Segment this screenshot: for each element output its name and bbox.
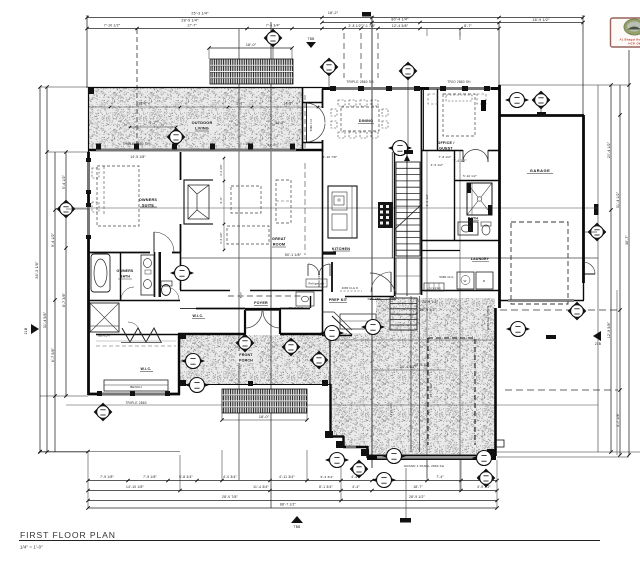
svg-text:31′-4 5/8″: 31′-4 5/8″ bbox=[43, 311, 47, 328]
svg-text:31′-4 1/2″: 31′-4 1/2″ bbox=[616, 191, 620, 208]
left ext line y=152 bbox=[47, 151, 88, 153]
svg-text:4′-4″: 4′-4″ bbox=[352, 485, 360, 489]
left section arrow 21B bbox=[31, 324, 39, 334]
hall south wall y=308 bbox=[180, 308, 196, 310]
bottom ext x=307 bbox=[306, 450, 308, 480]
svg-text:4′-0 3/4″: 4′-0 3/4″ bbox=[223, 475, 237, 479]
garage right lower jog bbox=[583, 283, 585, 300]
kitchen counter black bar bbox=[323, 252, 336, 255]
bath/wic divider y=300 bbox=[88, 300, 180, 302]
svg-text:LAUNDRY: LAUNDRY bbox=[471, 257, 490, 261]
laundry walls bbox=[421, 250, 460, 252]
bottom ext x=497 bbox=[496, 460, 498, 508]
right dim line x=629 bbox=[628, 50, 630, 455]
sw window triple 2860 bbox=[100, 393, 168, 396]
bottom center grid tick bbox=[400, 518, 411, 523]
rear patio paving bbox=[330, 298, 495, 454]
grid line y=258 bbox=[180, 257, 598, 259]
svg-text:9′-2″: 9′-2″ bbox=[149, 121, 157, 125]
window tag 17 bbox=[568, 302, 586, 320]
outdoor living window band bbox=[96, 149, 296, 152]
svg-text:TRIPLE 2860 SH: TRIPLE 2860 SH bbox=[346, 80, 374, 84]
bottom wall left jog windows bbox=[346, 446, 356, 449]
bath vanity 2 bbox=[458, 222, 478, 235]
svg-text:GRAND 4 PANEL 2860 SH: GRAND 4 PANEL 2860 SH bbox=[404, 464, 444, 468]
svg-text:14′-10 1/8″: 14′-10 1/8″ bbox=[126, 485, 145, 489]
svg-text:FIRST FLOOR PLAN: FIRST FLOOR PLAN bbox=[20, 530, 116, 540]
west wall window 2 bbox=[87, 205, 90, 237]
window tag 5 bbox=[532, 91, 550, 109]
bottom ext x=341 bbox=[340, 460, 342, 500]
svg-text:9′-0″: 9′-0″ bbox=[219, 197, 223, 204]
window tag 4 bbox=[506, 93, 528, 108]
svg-text:BENCH: BENCH bbox=[98, 334, 110, 338]
outdoor living top edge bbox=[89, 87, 323, 89]
svg-text:5′-4 1/2″: 5′-4 1/2″ bbox=[62, 174, 66, 189]
svg-text:5068 CLD: 5068 CLD bbox=[310, 119, 313, 131]
svg-text:6′-7 5/8″: 6′-7 5/8″ bbox=[51, 347, 55, 362]
svg-text:OWNERS: OWNERS bbox=[117, 269, 134, 273]
tag leader 408 bbox=[407, 80, 409, 150]
svg-text:7′-4 1/2″: 7′-4 1/2″ bbox=[453, 159, 467, 163]
svg-text:5′-5″: 5′-5″ bbox=[239, 292, 243, 299]
great room sofa 1 dashed bbox=[231, 186, 261, 213]
left ext line y=87 bbox=[40, 86, 89, 88]
window tag 2 bbox=[320, 58, 338, 76]
window tag 14 bbox=[310, 351, 328, 369]
bottom north arrow TBB bbox=[291, 516, 303, 523]
window tag 9 bbox=[588, 223, 606, 241]
svg-text:FRONT: FRONT bbox=[239, 353, 253, 357]
patio bottom wall bbox=[367, 455, 496, 461]
prep kit corner diagonal bbox=[332, 316, 352, 335]
svg-text:7′-4″: 7′-4″ bbox=[436, 475, 444, 479]
svg-text:BATH: BATH bbox=[120, 275, 131, 279]
patio covered area dashed bbox=[428, 338, 475, 445]
trellis2 dim 18-0 bbox=[222, 419, 307, 421]
svg-text:28′-9 1/2″: 28′-9 1/2″ bbox=[422, 300, 439, 304]
svg-text:GARAGE: GARAGE bbox=[530, 168, 551, 173]
svg-text:21B: 21B bbox=[595, 342, 601, 346]
tag leader 66 bbox=[66, 208, 89, 210]
window tag 20 bbox=[373, 473, 395, 488]
patio sw corner posts bbox=[336, 441, 344, 448]
svg-text:21B: 21B bbox=[24, 327, 28, 334]
svg-text:3′-10 7/8″: 3′-10 7/8″ bbox=[323, 155, 338, 159]
svg-text:25′-3 1/4″: 25′-3 1/4″ bbox=[191, 12, 209, 16]
prep kit west wall bbox=[331, 262, 333, 292]
garage front wall bbox=[499, 300, 584, 302]
south-west wall bbox=[88, 393, 180, 396]
svg-text:2′-6″: 2′-6″ bbox=[236, 102, 244, 106]
extension x=239 long bbox=[238, 29, 240, 480]
svg-text:TRIO 2860 SH: TRIO 2860 SH bbox=[447, 80, 471, 84]
hall west wall bbox=[180, 252, 182, 290]
svg-text:17′-7″: 17′-7″ bbox=[187, 24, 197, 28]
window tag 8 bbox=[389, 141, 411, 156]
extension line x=87 top bbox=[86, 15, 88, 88]
window tag 3 bbox=[399, 62, 417, 80]
svg-text:W.I.C.: W.I.C. bbox=[141, 367, 152, 371]
right dim line x=620 bbox=[619, 85, 621, 455]
bottom dim row y=508 bbox=[88, 507, 497, 509]
left dim line x=47 bbox=[46, 87, 48, 452]
svg-text:7′-10 1/2″: 7′-10 1/2″ bbox=[104, 24, 121, 28]
lounge/great divider wall bbox=[180, 152, 182, 180]
west wall window 1 bbox=[87, 160, 90, 192]
patio paving strip left of garage bbox=[480, 308, 496, 438]
svg-text:1/4″ = 1′-0″: 1/4″ = 1′-0″ bbox=[20, 545, 43, 550]
svg-text:ROOM: ROOM bbox=[273, 243, 286, 247]
svg-text:OUTDOOR: OUTDOOR bbox=[192, 121, 213, 125]
svg-text:4′-5 1/2″: 4′-5 1/2″ bbox=[431, 163, 444, 167]
outdoor living label bbox=[188, 119, 216, 132]
svg-text:28′-9 1/2″: 28′-9 1/2″ bbox=[414, 363, 430, 367]
great room east opening wall bbox=[322, 89, 324, 108]
svg-text:FOYER: FOYER bbox=[254, 301, 268, 305]
wic bench bbox=[104, 380, 168, 391]
terrace east wall bbox=[302, 87, 304, 150]
svg-text:TRIPLE 2860 SH: TRIPLE 2860 SH bbox=[122, 142, 150, 146]
window tag 10 bbox=[171, 266, 193, 281]
dashed window ext x=378 bbox=[377, 33, 379, 78]
stair upper run bbox=[396, 162, 420, 256]
bath wc 2 bbox=[482, 225, 490, 235]
foyer recess walls bbox=[244, 310, 246, 334]
hall top wall y=290 bbox=[180, 290, 230, 292]
trellis dim line 18-0 bbox=[209, 47, 292, 49]
bath north wall y=180 bbox=[454, 180, 499, 182]
dining table dashed bbox=[341, 107, 379, 131]
bath wall stub black bbox=[468, 218, 473, 232]
patio bottom window band bbox=[377, 456, 485, 459]
svg-text:PORCH: PORCH bbox=[239, 359, 253, 363]
prep kit walls bbox=[322, 290, 324, 335]
pantry double doors bbox=[307, 264, 309, 276]
svg-text:36′-3 1/8″: 36′-3 1/8″ bbox=[35, 261, 39, 279]
fireplace box bbox=[184, 180, 213, 224]
shower bench strip bbox=[467, 183, 472, 215]
svg-text:18′-0″: 18′-0″ bbox=[246, 43, 257, 47]
bottom dim row y=500 bbox=[88, 500, 497, 502]
office bed dashed bbox=[443, 94, 475, 136]
left ext line y=452 bbox=[40, 451, 88, 453]
kitchen west wall bbox=[322, 152, 324, 290]
extension x=427 long bbox=[426, 29, 428, 36]
dashed window ext x=344 bbox=[343, 33, 345, 78]
svg-text:9′-4 1/2″: 9′-4 1/2″ bbox=[51, 232, 55, 247]
pergola slats front bbox=[222, 389, 307, 413]
office south wall bbox=[421, 150, 463, 152]
svg-text:18′-6″: 18′-6″ bbox=[138, 102, 148, 106]
prep kit counter bbox=[340, 314, 376, 329]
svg-text:4′-2 3/4″: 4′-2 3/4″ bbox=[219, 164, 223, 176]
right grid tick y=210 bbox=[594, 204, 599, 215]
terrace dim 9-2 bbox=[130, 126, 176, 128]
south wall house bbox=[178, 333, 246, 335]
dashed overhang y=310 bbox=[500, 309, 618, 311]
svg-text:20′-4 1/2″: 20′-4 1/2″ bbox=[607, 141, 611, 158]
svg-text:8′-1 3/4″: 8′-1 3/4″ bbox=[319, 485, 333, 489]
svg-text:5′-10 1/2″: 5′-10 1/2″ bbox=[463, 174, 477, 178]
laundry door arc bbox=[390, 272, 392, 292]
right thin vertical x=617 bbox=[616, 290, 618, 455]
bath vanity bbox=[141, 255, 154, 295]
window tag 7 bbox=[57, 200, 75, 218]
patio grid line y=340 bbox=[330, 339, 496, 341]
svg-text:9060 OH DOOR: 9060 OH DOOR bbox=[486, 305, 490, 330]
svg-text:11′-4 3/4″: 11′-4 3/4″ bbox=[253, 485, 269, 489]
window tag 16 bbox=[94, 403, 112, 421]
great room sofa3 dashed bbox=[227, 226, 269, 244]
porch bottom edge bbox=[180, 384, 330, 386]
lockers bbox=[424, 283, 444, 291]
svg-text:7′-4 3/4″: 7′-4 3/4″ bbox=[266, 24, 281, 28]
patio thin vertical x=411 bbox=[410, 296, 412, 452]
extension x=372 long bbox=[371, 16, 373, 468]
window tag 26 bbox=[321, 326, 343, 341]
great room console dashed bbox=[276, 180, 291, 223]
svg-text:4′-4 3/4″: 4′-4 3/4″ bbox=[219, 232, 223, 244]
dim stub x=460 top bbox=[459, 32, 461, 41]
dashed window ext x=361 bbox=[360, 33, 362, 78]
svg-text:12′-9 5/8″: 12′-9 5/8″ bbox=[607, 321, 611, 338]
svg-text:GREAT: GREAT bbox=[272, 237, 286, 241]
kitchen sink bbox=[334, 196, 344, 205]
svg-text:36′-7″: 36′-7″ bbox=[625, 234, 629, 244]
svg-text:W: W bbox=[463, 279, 466, 283]
porch east edge bbox=[329, 334, 331, 384]
top dimension line row 1 bbox=[87, 17, 583, 19]
window tag 25 bbox=[362, 320, 384, 335]
bath door arcs bbox=[121, 287, 134, 300]
left ext line y=396 bbox=[40, 395, 88, 397]
svg-text:OWNERS: OWNERS bbox=[139, 198, 158, 202]
terrace joint line bbox=[89, 106, 322, 108]
extension x=499 top bbox=[498, 22, 500, 85]
bottom ext x=461 bbox=[460, 460, 462, 490]
svg-text:4′-11 3/4″: 4′-11 3/4″ bbox=[279, 475, 295, 479]
outdoor living left edge bbox=[88, 87, 90, 152]
right dim line x=598 bbox=[597, 85, 599, 452]
terrace-dining double door bbox=[306, 103, 308, 142]
right dim line x=611 bbox=[610, 85, 612, 452]
window tag 15 bbox=[186, 378, 208, 393]
svg-text:28′-9 1/4″: 28′-9 1/4″ bbox=[181, 19, 199, 23]
svg-text:PREP KIT: PREP KIT bbox=[329, 298, 348, 302]
svg-text:88′-7 1/2″: 88′-7 1/2″ bbox=[280, 503, 297, 507]
svg-text:18′-9 1/2″: 18′-9 1/2″ bbox=[532, 18, 550, 22]
svg-text:20′-9 1/2″: 20′-9 1/2″ bbox=[420, 308, 437, 312]
svg-text:28′-0 7/8″: 28′-0 7/8″ bbox=[222, 495, 239, 499]
window tag 13 bbox=[182, 354, 204, 369]
wic shelf dashes bbox=[96, 345, 176, 347]
bottom dim row y=490 bbox=[88, 490, 497, 492]
svg-text:7′-9 1/8″: 7′-9 1/8″ bbox=[143, 475, 157, 479]
garage man door arc bbox=[582, 262, 584, 274]
house north wall bbox=[322, 87, 500, 90]
svg-text:16′-0″: 16′-0″ bbox=[245, 142, 255, 146]
svg-text:3080 ENT: 3080 ENT bbox=[367, 297, 380, 301]
tag leader 329 bbox=[328, 76, 330, 88]
bottom ext x=88 bbox=[87, 452, 89, 508]
front porch paving bbox=[180, 335, 330, 384]
owners suite south wall bbox=[88, 252, 150, 254]
top dimension line row 2 bbox=[322, 22, 583, 24]
powder fixtures bbox=[296, 292, 314, 306]
window tag 1 bbox=[264, 29, 282, 47]
rear hall door arc bbox=[370, 299, 396, 301]
bath west wall bbox=[454, 150, 456, 240]
svg-text:7′-9 1/8″: 7′-9 1/8″ bbox=[100, 475, 114, 479]
garage marker block bbox=[546, 335, 556, 339]
svg-text:TBB: TBB bbox=[294, 525, 301, 529]
shower with bench bbox=[90, 303, 119, 332]
svg-text:7′-8 1/2″: 7′-8 1/2″ bbox=[439, 155, 452, 159]
svg-text:4080 CLG D: 4080 CLG D bbox=[342, 286, 358, 290]
svg-text:24′-1 3/4″: 24′-1 3/4″ bbox=[429, 383, 433, 398]
south wall right of foyer bbox=[280, 333, 323, 335]
patio left wall lower bbox=[329, 384, 331, 437]
svg-text:8′-7″: 8′-7″ bbox=[464, 24, 472, 28]
bottom dim chain y=450 left bbox=[40, 451, 180, 453]
svg-text:KITCHEN: KITCHEN bbox=[332, 247, 350, 251]
outdoor living bottom wall bbox=[89, 149, 323, 152]
porch posts bbox=[180, 380, 186, 386]
svg-text:TRIPLE 2860: TRIPLE 2860 bbox=[125, 401, 146, 405]
svg-text:HCP, Okl: HCP, Okl bbox=[628, 42, 640, 46]
svg-text:BATH: BATH bbox=[468, 217, 479, 221]
extension x=460 long bbox=[459, 29, 461, 36]
right ext y=457 bbox=[497, 456, 629, 458]
svg-text:DINING: DINING bbox=[359, 119, 374, 123]
garage top wall bbox=[499, 114, 584, 117]
bottom ext x=222 bbox=[221, 450, 223, 480]
tag leader 597 bbox=[584, 231, 597, 233]
svg-text:12′-0″: 12′-0″ bbox=[268, 143, 277, 147]
svg-text:9′-0 1/2″: 9′-0 1/2″ bbox=[425, 194, 429, 207]
bifold closet doors bbox=[122, 328, 161, 342]
outdoor living posts bbox=[96, 144, 101, 150]
window tag 12 bbox=[282, 338, 300, 356]
dashed overhang y=390 bbox=[505, 389, 618, 391]
extension x=583 top bbox=[582, 15, 584, 115]
svg-text:BENCH: BENCH bbox=[130, 385, 142, 389]
dashed x=305 great room bbox=[304, 163, 306, 255]
svg-text:4050 FXD: 4050 FXD bbox=[317, 273, 321, 287]
kitchen island bbox=[328, 186, 357, 238]
stair landing bbox=[396, 258, 420, 294]
office closet doors bbox=[462, 150, 464, 162]
grid line y=208 bbox=[66, 207, 598, 209]
owners suite door bbox=[153, 232, 155, 252]
front porch label bbox=[236, 351, 257, 363]
svg-text:14′-9 3/8″: 14′-9 3/8″ bbox=[389, 403, 393, 418]
window tag 19 bbox=[350, 460, 368, 478]
bottom ext x=427 bbox=[426, 460, 428, 480]
svg-text:OFFICE /: OFFICE / bbox=[437, 141, 454, 145]
left dim line x=66 bbox=[65, 152, 67, 396]
bath tub bbox=[91, 254, 110, 292]
hall dashed ceiling line bbox=[228, 295, 302, 297]
bottom dim row y=480 bbox=[88, 480, 497, 482]
tag leader 541 bbox=[540, 108, 542, 116]
svg-text:28′-9 1/2″: 28′-9 1/2″ bbox=[409, 495, 426, 499]
window tag 24 bbox=[326, 453, 348, 468]
left dim line x=55 bbox=[54, 152, 56, 452]
svg-text:14′-5 1/8″: 14′-5 1/8″ bbox=[130, 155, 146, 159]
wic east wall bbox=[178, 334, 180, 395]
right ext y=452 bbox=[497, 451, 640, 453]
svg-text:W.I.C.: W.I.C. bbox=[193, 314, 204, 318]
stairwell wall x=421 bbox=[421, 89, 423, 295]
left dim line x=40 bbox=[39, 87, 41, 452]
water closet bbox=[162, 285, 171, 296]
patio thin vertical x=419.5 bbox=[419, 296, 421, 452]
garage door band bbox=[508, 299, 574, 302]
top ref arrow TBB bbox=[306, 42, 316, 48]
right ext y=85 bbox=[499, 84, 629, 86]
office wall pier bbox=[481, 100, 486, 111]
bath shower x bbox=[467, 183, 492, 215]
builder logo box bbox=[611, 18, 640, 47]
right section arrow 21B bbox=[593, 331, 601, 341]
window tag 6 bbox=[167, 128, 185, 146]
garage right wall bbox=[582, 115, 585, 283]
patio right wall bbox=[494, 308, 497, 456]
refrigerator label box bbox=[306, 279, 327, 287]
west wall bbox=[87, 152, 90, 395]
stairwell wall x=394 bbox=[394, 152, 396, 258]
bath south wall y=240 bbox=[421, 240, 499, 242]
svg-text:LIVING: LIVING bbox=[195, 127, 209, 131]
bath inner wall x=120 bbox=[120, 252, 122, 300]
svg-text:50′-1 1/8″: 50′-1 1/8″ bbox=[285, 253, 302, 257]
svg-text:TBB: TBB bbox=[308, 37, 315, 41]
east wall x=499 upper bbox=[498, 85, 501, 308]
outdoor living terrace paving bbox=[89, 88, 302, 149]
stair center rail bbox=[406, 150, 408, 296]
svg-text:18′-2″: 18′-2″ bbox=[328, 11, 339, 15]
svg-text:18′-7″: 18′-7″ bbox=[413, 485, 423, 489]
office west wall bbox=[437, 89, 439, 150]
svg-text:14′-6″: 14′-6″ bbox=[283, 102, 293, 106]
north wall window trio 2860 bbox=[429, 87, 491, 90]
terrace dashed centerline bbox=[304, 95, 306, 148]
owners bed dashed bbox=[97, 166, 139, 226]
extension x=271 long bbox=[270, 22, 272, 508]
patio se corner post bbox=[487, 449, 495, 456]
north wall window triple 2860 bbox=[331, 87, 419, 90]
svg-text:18′-0″: 18′-0″ bbox=[259, 415, 270, 419]
washer dryer bbox=[457, 272, 474, 289]
bottom ext x=180 bbox=[179, 455, 181, 490]
window tag 21 bbox=[473, 451, 495, 466]
title underline bbox=[19, 540, 600, 542]
svg-text:12′-4 3/8″: 12′-4 3/8″ bbox=[392, 24, 409, 28]
svg-text:8′-7 3/8″: 8′-7 3/8″ bbox=[62, 292, 66, 307]
svg-text:5′-3 3/4″: 5′-3 3/4″ bbox=[320, 475, 334, 479]
extension dashed x=137 bbox=[136, 29, 138, 147]
window tag 11 bbox=[236, 334, 254, 352]
stair break line bbox=[394, 204, 422, 230]
post top-left of terrace bbox=[88, 88, 94, 94]
svg-text:80′-4 1/4″: 80′-4 1/4″ bbox=[391, 18, 409, 22]
svg-text:5′-8 3/4″: 5′-8 3/4″ bbox=[179, 475, 193, 479]
svg-text:GUEST: GUEST bbox=[439, 147, 453, 151]
window tag 23 bbox=[383, 449, 405, 464]
clg dashed label bbox=[340, 290, 362, 292]
